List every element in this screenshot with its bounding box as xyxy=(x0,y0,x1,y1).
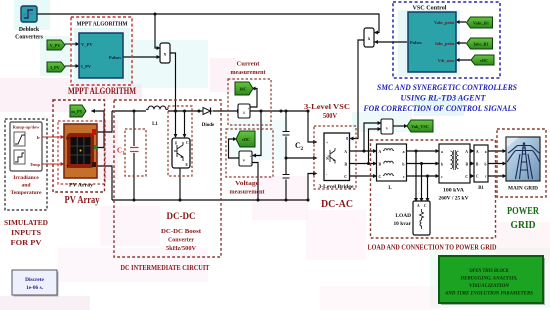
svg-text:measurement: measurement xyxy=(231,69,267,76)
svg-text:N: N xyxy=(326,157,329,161)
svg-text:MPPT ALGORITHM: MPPT ALGORITHM xyxy=(77,22,128,28)
svg-text:DC-AC: DC-AC xyxy=(321,199,353,210)
svg-text:b: b xyxy=(402,163,404,167)
svg-text:A: A xyxy=(476,150,479,154)
svg-text:PV Array: PV Array xyxy=(65,195,100,206)
svg-text:V_PV: V_PV xyxy=(50,43,61,48)
svg-text:500V: 500V xyxy=(323,112,337,120)
svg-text:B1: B1 xyxy=(478,186,484,191)
svg-text:A: A xyxy=(379,150,382,154)
svg-text:260V / 25 kV: 260V / 25 kV xyxy=(439,197,470,202)
svg-text:DEBUGGING, ANALYSIS,: DEBUGGING, ANALYSIS, xyxy=(460,276,518,282)
svg-text:Discrete: Discrete xyxy=(25,277,44,283)
svg-text:b: b xyxy=(441,163,443,167)
svg-text:Ramp-up/dow: Ramp-up/dow xyxy=(13,125,41,130)
svg-text:SIMULATED: SIMULATED xyxy=(4,218,48,227)
svg-text:GRID: GRID xyxy=(511,219,536,231)
svg-text:MAIN GRID: MAIN GRID xyxy=(508,187,539,192)
svg-text:g: g xyxy=(346,136,348,140)
svg-text:Vdc_mes: Vdc_mes xyxy=(438,58,455,63)
svg-text:L: L xyxy=(388,186,392,191)
svg-text:DC-DC Boost: DC-DC Boost xyxy=(161,229,201,235)
svg-text:Pulses: Pulses xyxy=(109,55,121,60)
svg-text:AND TIME EVOLUTION PARAMETERS: AND TIME EVOLUTION PARAMETERS xyxy=(444,291,533,297)
svg-text:3-Level VSC: 3-Level VSC xyxy=(304,103,350,111)
svg-text:10 kvar: 10 kvar xyxy=(393,221,411,227)
svg-text:A: A xyxy=(417,204,420,208)
svg-text:+: + xyxy=(248,107,250,111)
svg-text:LOAD AND CONNECTION TO POWER G: LOAD AND CONNECTION TO POWER GRID xyxy=(368,244,497,252)
svg-text:Pulses: Pulses xyxy=(410,40,422,45)
svg-text:L1: L1 xyxy=(152,122,158,127)
svg-text:2: 2 xyxy=(301,146,304,152)
svg-text:USING RL-TD3 AGENT: USING RL-TD3 AGENT xyxy=(401,94,487,103)
svg-text:DC INTERMEDIATE CIRCUIT: DC INTERMEDIATE CIRCUIT xyxy=(121,264,210,272)
svg-text:100 kVA: 100 kVA xyxy=(443,189,465,194)
svg-text:5kHz/500V: 5kHz/500V xyxy=(166,246,197,252)
svg-text:Vabc_prim: Vabc_prim xyxy=(434,20,454,25)
svg-text:C: C xyxy=(379,175,382,179)
svg-text:POWER: POWER xyxy=(507,205,540,217)
svg-text:Vabc_B1: Vabc_B1 xyxy=(473,21,489,26)
svg-text:C: C xyxy=(476,175,479,179)
svg-text:OPEN THIS BLOCK: OPEN THIS BLOCK xyxy=(470,268,509,274)
svg-text:C: C xyxy=(465,175,468,179)
svg-text:vDC: vDC xyxy=(242,137,250,142)
svg-text:C: C xyxy=(186,141,189,145)
svg-text:Diode: Diode xyxy=(202,123,215,128)
svg-text:Converter: Converter xyxy=(168,238,194,244)
svg-text:FOR CORRECTION OF CONTROL SIGN: FOR CORRECTION OF CONTROL SIGNALS xyxy=(363,104,517,113)
svg-text:V_PV: V_PV xyxy=(81,42,93,47)
svg-text:A: A xyxy=(465,150,468,154)
svg-text:+: + xyxy=(249,155,251,159)
svg-text:Temp: Temp xyxy=(30,162,41,167)
svg-text:PV Array: PV Array xyxy=(69,184,94,189)
svg-text:LOAD: LOAD xyxy=(395,213,411,219)
svg-text:Ir: Ir xyxy=(37,135,41,140)
svg-text:Vab_VSC: Vab_VSC xyxy=(411,124,429,129)
svg-text:Iabc_B1: Iabc_B1 xyxy=(474,42,489,47)
svg-text:Voltage: Voltage xyxy=(235,180,259,187)
svg-text:INPUTS: INPUTS xyxy=(11,228,41,237)
svg-text:SMC AND SYNERGETIC CONTROLLERS: SMC AND SYNERGETIC CONTROLLERS xyxy=(377,83,518,92)
svg-text:+: + xyxy=(326,141,328,145)
svg-text:Ir: Ir xyxy=(66,136,70,141)
svg-text:DC-DC: DC-DC xyxy=(167,212,196,222)
svg-text:and: and xyxy=(21,183,31,189)
svg-text:Temperature: Temperature xyxy=(10,190,42,196)
svg-text:1e-06 s.: 1e-06 s. xyxy=(26,285,44,291)
svg-text:3-Level Bridge: 3-Level Bridge xyxy=(319,185,354,190)
svg-text:Irradiance: Irradiance xyxy=(13,175,39,181)
svg-text:a: a xyxy=(403,150,405,154)
svg-text:I_PV: I_PV xyxy=(81,64,92,69)
svg-text:VISUALIZATION: VISUALIZATION xyxy=(469,283,509,289)
svg-text:C: C xyxy=(344,175,347,179)
svg-text:Current: Current xyxy=(237,61,261,68)
svg-text:Deblock: Deblock xyxy=(19,27,40,33)
svg-text:measurement: measurement xyxy=(230,189,266,196)
svg-text:b: b xyxy=(485,163,487,167)
svg-text:VSC Control: VSC Control xyxy=(413,6,447,12)
svg-text:I_PV: I_PV xyxy=(50,65,59,70)
svg-text:Converters: Converters xyxy=(15,35,43,41)
svg-text:IdC: IdC xyxy=(240,87,247,92)
svg-text:A: A xyxy=(344,150,347,154)
svg-text:Iabc_prim: Iabc_prim xyxy=(435,41,454,46)
svg-text:vDC: vDC xyxy=(480,58,488,63)
svg-text:g: g xyxy=(175,141,177,145)
svg-text:a: a xyxy=(485,150,487,154)
svg-text:a: a xyxy=(441,150,443,154)
svg-text:m_PV: m_PV xyxy=(71,109,82,114)
svg-text:MPPT ALGORITHM: MPPT ALGORITHM xyxy=(68,86,136,96)
svg-text:C: C xyxy=(424,204,427,208)
svg-text:T: T xyxy=(66,164,69,169)
svg-text:FOR PV: FOR PV xyxy=(11,238,43,247)
